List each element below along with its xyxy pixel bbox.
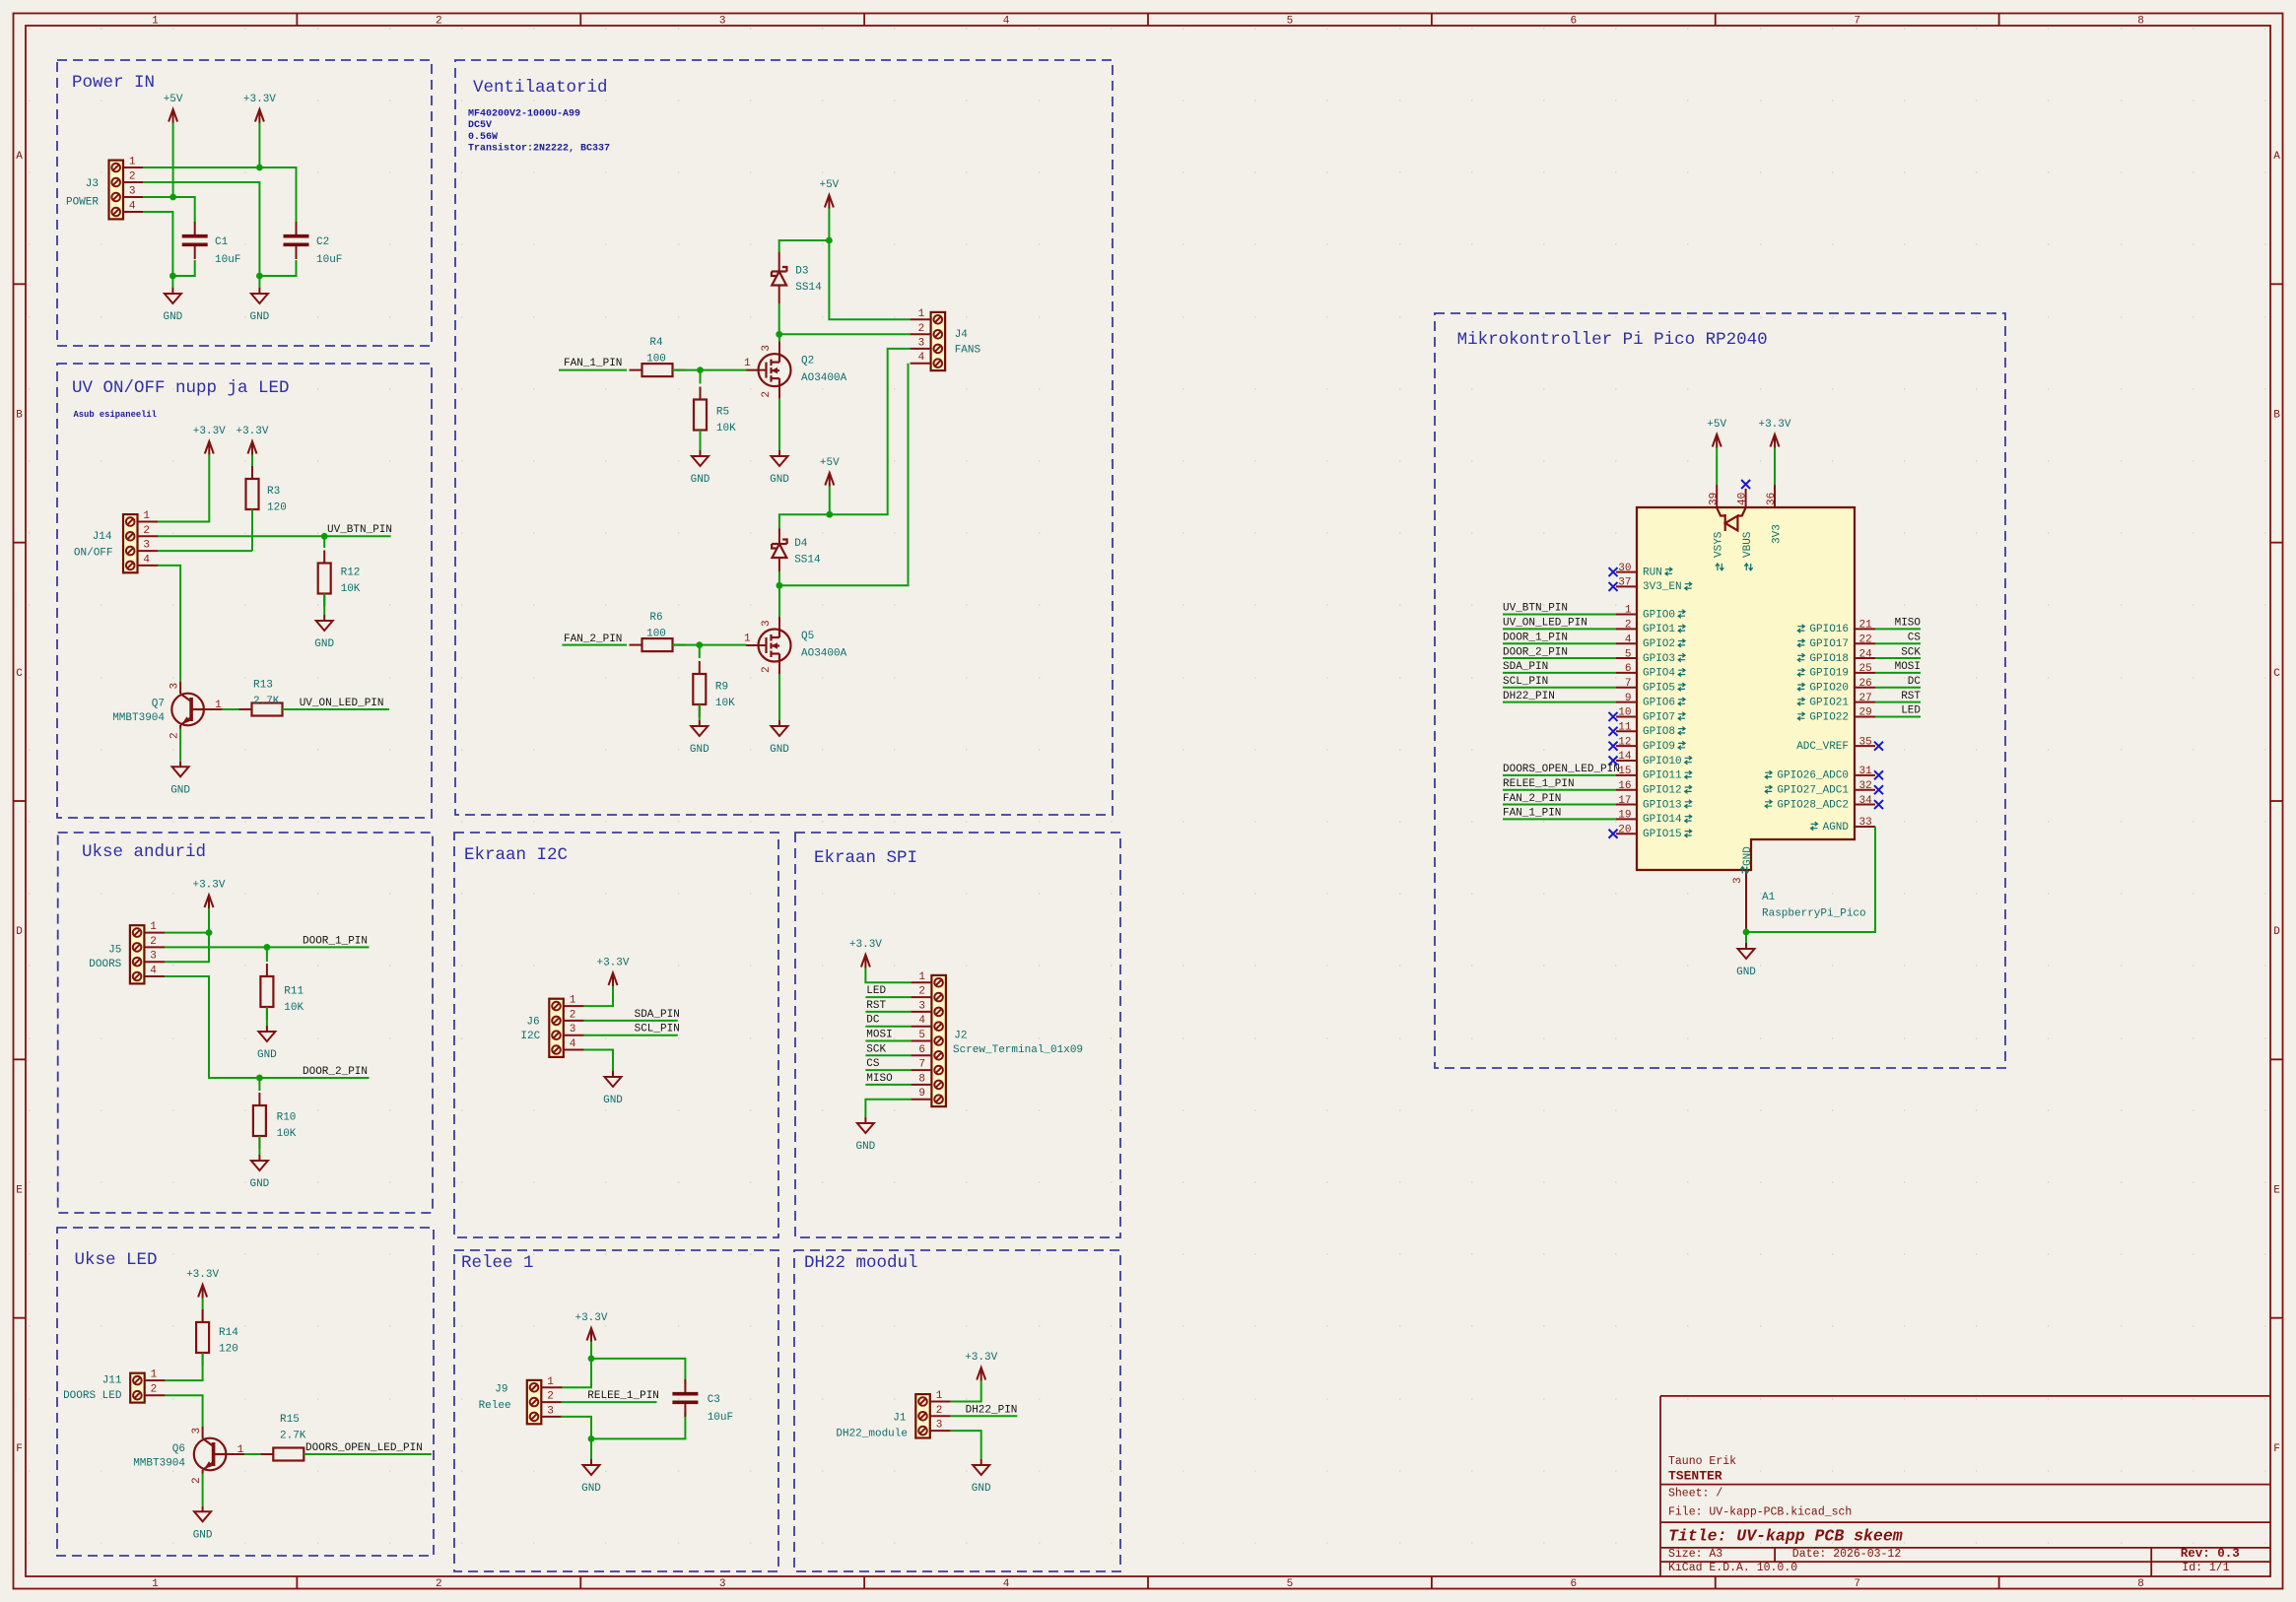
svg-text:7: 7 xyxy=(1625,678,1632,690)
ground xyxy=(581,1459,601,1495)
svg-text:5: 5 xyxy=(1625,648,1632,660)
svg-text:2: 2 xyxy=(1625,620,1632,632)
wire J5 pin4 down / DOOR_2_PIN xyxy=(165,976,370,1078)
diode D3 SS14 xyxy=(772,266,822,295)
svg-text:UV_ON_LED_PIN: UV_ON_LED_PIN xyxy=(300,698,384,709)
svg-text:Transistor:2N2222, BC337: Transistor:2N2222, BC337 xyxy=(468,143,610,155)
junction xyxy=(256,1075,263,1082)
svg-text:2: 2 xyxy=(547,1391,554,1403)
svg-text:2: 2 xyxy=(169,732,181,739)
svg-text:32: 32 xyxy=(1859,780,1872,792)
resistor R15 2.7K xyxy=(260,1414,316,1461)
svg-text:3: 3 xyxy=(150,951,157,963)
svg-text:3: 3 xyxy=(936,1420,943,1432)
svg-text:GPIO19: GPIO19 xyxy=(1809,668,1849,680)
svg-text:10K: 10K xyxy=(715,698,735,709)
svg-text:Ventilaatorid: Ventilaatorid xyxy=(473,78,608,98)
pin 39 VSYS xyxy=(1716,485,1718,507)
svg-text:1: 1 xyxy=(744,358,751,369)
no-connect xyxy=(1874,800,1883,809)
svg-text:2: 2 xyxy=(191,1477,203,1484)
svg-text:DC: DC xyxy=(866,1015,880,1027)
wire J5 pin2 / DOOR_1_PIN xyxy=(165,946,370,948)
svg-text:D3: D3 xyxy=(795,266,808,278)
power +3.3V xyxy=(965,1352,997,1381)
svg-text:AGND: AGND xyxy=(1823,822,1850,834)
svg-text:R6: R6 xyxy=(649,612,662,624)
svg-text:2: 2 xyxy=(150,936,157,948)
svg-text:DOOR_1_PIN: DOOR_1_PIN xyxy=(303,935,368,947)
svg-text:1: 1 xyxy=(151,1369,158,1381)
wire J2 pin2 / LED xyxy=(865,996,911,998)
svg-text:1: 1 xyxy=(1625,605,1632,617)
wire C2 bottom to gnd node xyxy=(259,260,296,276)
svg-text:GPIO26_ADC0: GPIO26_ADC0 xyxy=(1777,770,1849,782)
junction xyxy=(588,1435,595,1442)
svg-text:GPIO18: GPIO18 xyxy=(1809,653,1849,665)
svg-text:24: 24 xyxy=(1859,648,1873,660)
svg-text:GPIO22: GPIO22 xyxy=(1809,711,1849,723)
no-connect xyxy=(1609,830,1618,838)
pin 40 VBUS xyxy=(1745,489,1747,507)
svg-text:MMBT3904: MMBT3904 xyxy=(112,712,165,724)
pin 7 GPIO5 xyxy=(1616,678,1685,695)
svg-text:9: 9 xyxy=(918,1088,925,1100)
pin 27 GPIO21 xyxy=(1797,693,1875,709)
wire node to D3 top xyxy=(779,240,830,252)
wire node to R11 xyxy=(266,947,268,962)
capacitor C3 10uF xyxy=(672,1379,733,1424)
transistor Q6 MMBT3904 xyxy=(133,1427,244,1484)
junction xyxy=(256,273,263,280)
wire D3 bottom to drain node xyxy=(778,286,780,304)
svg-text:2: 2 xyxy=(436,1578,442,1590)
svg-text:MOSI: MOSI xyxy=(866,1030,892,1041)
svg-text:15: 15 xyxy=(1618,766,1631,777)
svg-text:R10: R10 xyxy=(277,1112,297,1124)
wire J1 pin2 / DH22_PIN xyxy=(951,1415,1017,1417)
svg-text:10uF: 10uF xyxy=(708,1412,733,1424)
svg-text:J3: J3 xyxy=(86,178,99,190)
wire node down to J9 pin1 xyxy=(561,1359,591,1387)
wire J6 pin2 / SDA_PIN xyxy=(583,1020,678,1022)
svg-text:SS14: SS14 xyxy=(794,555,821,567)
svg-text:A: A xyxy=(2273,151,2280,163)
svg-text:DOORS: DOORS xyxy=(89,959,121,970)
svg-text:KiCad E.D.A. 10.0.0: KiCad E.D.A. 10.0.0 xyxy=(1668,1562,1797,1574)
svg-text:GPIO2: GPIO2 xyxy=(1643,638,1675,650)
svg-text:A1: A1 xyxy=(1762,892,1776,903)
svg-text:1: 1 xyxy=(237,1444,244,1456)
svg-text:GND: GND xyxy=(770,474,789,486)
svg-text:Ukse andurid: Ukse andurid xyxy=(82,842,206,862)
connector J6 (I2C) xyxy=(520,995,583,1057)
section box: Ukse andurid xyxy=(58,833,433,1213)
wire node to C3 bottom xyxy=(591,1412,685,1438)
no-connect xyxy=(1609,742,1618,751)
svg-text:E: E xyxy=(16,1185,23,1197)
svg-text:RST: RST xyxy=(866,1000,886,1012)
wire J3 pin3 to +5V node xyxy=(143,196,173,198)
pin 20 GPIO15 xyxy=(1616,824,1692,840)
resistor R6 100 xyxy=(630,612,686,651)
wire J3 pin4 down to C1 bottom node xyxy=(143,212,172,276)
pin 19 GPIO14 xyxy=(1616,810,1692,827)
power +3.3V xyxy=(574,1312,607,1342)
pin 25 GPIO19 xyxy=(1797,663,1875,680)
svg-text:2: 2 xyxy=(151,1384,158,1396)
svg-text:34: 34 xyxy=(1859,795,1873,807)
wire CS xyxy=(1875,642,1921,644)
svg-text:+3.3V: +3.3V xyxy=(186,1269,219,1281)
svg-text:RUN: RUN xyxy=(1643,567,1662,578)
svg-text:ON/OFF: ON/OFF xyxy=(74,548,113,560)
svg-text:Relee: Relee xyxy=(479,1400,511,1412)
no-connect xyxy=(1609,712,1618,721)
pin 2 GPIO1 xyxy=(1616,620,1685,636)
svg-text:RaspberryPi_Pico: RaspberryPi_Pico xyxy=(1762,908,1866,920)
capacitor C2 10uF xyxy=(284,222,343,266)
ground xyxy=(770,450,789,486)
svg-text:1: 1 xyxy=(918,308,925,320)
pin 6 GPIO4 xyxy=(1616,663,1685,680)
wire MISO xyxy=(1875,628,1921,630)
wire DOORS_OPEN_LED_PIN xyxy=(1503,774,1616,776)
junction xyxy=(256,165,263,171)
svg-text:2.7K: 2.7K xyxy=(253,696,280,707)
wire node down to J4 pin1 xyxy=(829,240,910,319)
svg-text:1: 1 xyxy=(744,634,751,645)
junction xyxy=(321,533,328,540)
ground xyxy=(170,761,190,796)
wire node to Q5 drain xyxy=(778,585,780,617)
wire node right and up to J4 pin4 xyxy=(779,364,909,586)
junction xyxy=(206,929,213,936)
svg-text:UV_BTN_PIN: UV_BTN_PIN xyxy=(1503,603,1568,615)
svg-text:GPIO17: GPIO17 xyxy=(1809,638,1849,650)
wire MOSI xyxy=(1875,672,1921,674)
svg-text:J5: J5 xyxy=(108,945,121,957)
svg-text:RST: RST xyxy=(1901,691,1921,702)
no-connect xyxy=(1609,567,1618,576)
svg-text:DOORS_OPEN_LED_PIN: DOORS_OPEN_LED_PIN xyxy=(1503,764,1620,775)
svg-text:Q2: Q2 xyxy=(801,356,814,367)
svg-text:POWER: POWER xyxy=(66,197,99,209)
svg-text:DH22 moodul: DH22 moodul xyxy=(804,1253,918,1273)
svg-text:MOSI: MOSI xyxy=(1895,661,1921,673)
svg-text:10K: 10K xyxy=(277,1128,297,1140)
connector J4 (FANS) xyxy=(911,308,946,370)
svg-text:6: 6 xyxy=(1571,16,1578,28)
svg-text:+3.3V: +3.3V xyxy=(193,426,226,437)
wire +5V to pin3 junction xyxy=(172,123,174,198)
svg-text:GND: GND xyxy=(690,744,709,756)
svg-text:RELEE_1_PIN: RELEE_1_PIN xyxy=(1503,778,1575,790)
pin 26 GPIO20 xyxy=(1797,678,1875,695)
svg-text:35: 35 xyxy=(1859,736,1872,748)
svg-text:+3.3V: +3.3V xyxy=(1758,419,1790,431)
wire node to R5 xyxy=(700,370,702,384)
svg-text:C3: C3 xyxy=(708,1394,720,1406)
svg-text:GND: GND xyxy=(257,1049,277,1061)
svg-text:10K: 10K xyxy=(716,423,736,434)
pin 30 RUN xyxy=(1616,563,1672,579)
svg-text:1: 1 xyxy=(152,16,159,28)
svg-text:MISO: MISO xyxy=(1895,618,1922,630)
svg-text:DOORS LED: DOORS LED xyxy=(63,1390,122,1402)
connector J14 (ON/OFF) xyxy=(74,510,159,572)
svg-text:5: 5 xyxy=(918,1030,925,1041)
wire node to Q2 drain xyxy=(778,334,780,341)
section box: DH22 moodul xyxy=(794,1250,1120,1571)
svg-text:SDA_PIN: SDA_PIN xyxy=(635,1009,680,1021)
svg-text:1: 1 xyxy=(570,995,576,1007)
svg-text:3: 3 xyxy=(719,1578,726,1590)
junction xyxy=(264,944,271,951)
diode D4 SS14 xyxy=(772,538,821,567)
svg-text:GND: GND xyxy=(855,1141,875,1153)
svg-text:2: 2 xyxy=(129,171,136,183)
wire J9 pin3 down to node xyxy=(561,1417,591,1439)
svg-text:3: 3 xyxy=(570,1024,576,1035)
power +3.3V xyxy=(243,94,276,123)
power +3.3V xyxy=(596,958,629,987)
svg-text:R14: R14 xyxy=(219,1327,238,1339)
svg-text:21: 21 xyxy=(1859,620,1873,632)
svg-text:ADC_VREF: ADC_VREF xyxy=(1796,741,1849,753)
junction xyxy=(169,194,176,201)
wire DOOR_2_PIN xyxy=(1503,657,1616,659)
wire node to gnd xyxy=(590,1438,592,1459)
svg-text:GND: GND xyxy=(691,474,710,486)
svg-text:R3: R3 xyxy=(267,486,280,498)
svg-text:GPIO20: GPIO20 xyxy=(1809,683,1849,695)
junction xyxy=(826,237,833,244)
wire gnd drop xyxy=(1745,932,1747,943)
svg-text:SCK: SCK xyxy=(1901,646,1921,658)
svg-text:Relee 1: Relee 1 xyxy=(461,1253,534,1273)
svg-text:AO3400A: AO3400A xyxy=(801,372,847,384)
svg-text:3: 3 xyxy=(191,1428,203,1435)
wire J14 pin2 / UV_BTN_PIN xyxy=(158,535,391,537)
svg-text:E: E xyxy=(2273,1185,2280,1197)
svg-text:4: 4 xyxy=(570,1038,576,1050)
svg-text:GPIO27_ADC1: GPIO27_ADC1 xyxy=(1777,785,1849,797)
power +5V xyxy=(164,94,183,123)
svg-text:DOOR_2_PIN: DOOR_2_PIN xyxy=(303,1066,368,1078)
svg-text:GND: GND xyxy=(193,1529,213,1541)
svg-text:1: 1 xyxy=(150,921,157,933)
svg-text:GPIO12: GPIO12 xyxy=(1643,785,1682,797)
pin 21 GPIO16 xyxy=(1797,620,1875,636)
svg-text:R9: R9 xyxy=(715,682,728,694)
svg-text:UV_ON_LED_PIN: UV_ON_LED_PIN xyxy=(1503,618,1587,630)
wire gnd drop 2 xyxy=(258,276,260,288)
transistor Q5 AO3400A xyxy=(744,617,847,674)
pin 5 GPIO3 xyxy=(1616,648,1685,665)
svg-text:29: 29 xyxy=(1859,707,1872,719)
power +3.3V xyxy=(1758,419,1790,448)
svg-text:25: 25 xyxy=(1859,663,1872,675)
svg-text:120: 120 xyxy=(267,502,287,514)
svg-text:GPIO14: GPIO14 xyxy=(1643,814,1682,826)
svg-text:17: 17 xyxy=(1618,795,1631,807)
resistor R4 100 xyxy=(630,337,686,376)
svg-text:Screw_Terminal_01x09: Screw_Terminal_01x09 xyxy=(953,1044,1083,1056)
svg-text:33: 33 xyxy=(1859,817,1872,829)
wire UV_ON_LED_PIN xyxy=(1503,628,1616,630)
svg-text:GND: GND xyxy=(163,311,182,323)
wire D4 bottom to drain node xyxy=(778,558,780,571)
svg-text:+5V: +5V xyxy=(820,457,840,469)
svg-text:DH22_module: DH22_module xyxy=(836,1428,908,1439)
svg-text:J11: J11 xyxy=(102,1375,122,1387)
junction xyxy=(826,511,833,518)
ground xyxy=(690,720,709,756)
svg-text:Id: 1/1: Id: 1/1 xyxy=(2182,1562,2229,1574)
wire +3.3V down to pin1 xyxy=(208,908,210,933)
wire J14 pin1 to +3.3V xyxy=(158,455,209,522)
svg-text:C: C xyxy=(2273,668,2280,680)
svg-text:2: 2 xyxy=(918,986,925,998)
ground xyxy=(314,615,334,650)
svg-text:10uF: 10uF xyxy=(316,254,342,266)
svg-text:UV_BTN_PIN: UV_BTN_PIN xyxy=(327,524,392,536)
pin 9 GPIO6 xyxy=(1616,693,1685,709)
wire R14 to J11 pin1 xyxy=(166,1353,203,1380)
svg-text:LED: LED xyxy=(866,985,886,997)
pin 16 GPIO12 xyxy=(1616,780,1692,797)
svg-text:Asub esipaneelil: Asub esipaneelil xyxy=(74,410,157,420)
wire FAN_2_PIN xyxy=(1503,804,1616,806)
pin 22 GPIO17 xyxy=(1797,634,1875,650)
no-connect xyxy=(1874,785,1883,794)
svg-text:J6: J6 xyxy=(526,1017,539,1029)
svg-text:2: 2 xyxy=(936,1405,943,1417)
svg-text:SS14: SS14 xyxy=(795,282,822,294)
wire J1 pin3 to gnd xyxy=(951,1431,981,1459)
svg-text:CS: CS xyxy=(1908,632,1922,643)
section box: Ekraan I2C xyxy=(454,833,778,1237)
svg-text:MMBT3904: MMBT3904 xyxy=(133,1458,185,1470)
junction xyxy=(697,367,704,373)
wire node to C1 top xyxy=(173,197,195,223)
no-connect xyxy=(1874,770,1883,779)
svg-text:GND: GND xyxy=(249,311,269,323)
svg-text:Ekraan SPI: Ekraan SPI xyxy=(814,848,917,868)
svg-text:3: 3 xyxy=(761,620,773,627)
pin 17 GPIO13 xyxy=(1616,795,1692,812)
resistor R11 10K xyxy=(260,964,304,1020)
svg-text:R15: R15 xyxy=(280,1414,300,1426)
wire R5 to gnd xyxy=(700,431,702,451)
svg-text:8: 8 xyxy=(2137,16,2144,28)
svg-text:30: 30 xyxy=(1618,563,1631,574)
svg-text:FANS: FANS xyxy=(955,345,981,357)
svg-text:DOOR_1_PIN: DOOR_1_PIN xyxy=(1503,632,1568,643)
wire R15 / DOORS_OPEN_LED_PIN xyxy=(304,1453,432,1455)
wire FAN_1_PIN to R4 xyxy=(559,369,627,371)
svg-text:GPIO0: GPIO0 xyxy=(1643,609,1675,621)
svg-text:B: B xyxy=(16,410,23,422)
svg-text:2: 2 xyxy=(436,16,442,28)
wire gnd drop 1 xyxy=(171,276,173,288)
wire AGND to gnd node xyxy=(1746,827,1875,932)
svg-text:1: 1 xyxy=(129,157,136,168)
resistor R3 120 xyxy=(246,466,287,522)
svg-text:2: 2 xyxy=(761,391,773,398)
svg-text:22: 22 xyxy=(1859,634,1872,645)
svg-text:+3.3V: +3.3V xyxy=(849,939,882,951)
junction xyxy=(1743,929,1750,936)
svg-text:3: 3 xyxy=(918,337,925,349)
wire J2 pin4 / DC xyxy=(865,1026,911,1028)
ground xyxy=(855,1117,875,1153)
power +5V xyxy=(1707,419,1726,448)
wire J2 pin9 to gnd xyxy=(865,1100,911,1117)
connector J9 (Relee) xyxy=(479,1376,563,1425)
svg-text:Q6: Q6 xyxy=(172,1443,185,1455)
resistor R14 120 xyxy=(196,1309,238,1366)
svg-text:+5V: +5V xyxy=(819,179,839,191)
junction xyxy=(588,1356,595,1363)
wire +3.3V to node xyxy=(590,1342,592,1359)
connector J1 (DH22_module) xyxy=(836,1390,950,1439)
wire +3.3V to J6 pin1 xyxy=(583,986,613,1006)
pin 1 GPIO0 xyxy=(1616,605,1685,622)
svg-text:GPIO16: GPIO16 xyxy=(1809,624,1849,635)
svg-text:12: 12 xyxy=(1618,736,1631,748)
wire DC xyxy=(1875,687,1921,689)
svg-text:100: 100 xyxy=(646,629,666,640)
power +3.3V xyxy=(849,939,882,968)
svg-text:3V3_EN: 3V3_EN xyxy=(1643,581,1682,593)
svg-text:GND: GND xyxy=(249,1178,269,1190)
wire R12 bottom to gnd xyxy=(323,594,325,616)
svg-text:7: 7 xyxy=(1854,1578,1860,1590)
junction xyxy=(169,273,176,280)
pin 12 GPIO9 xyxy=(1616,736,1685,753)
svg-text:SCL_PIN: SCL_PIN xyxy=(635,1024,680,1035)
wire J14 pin3 xyxy=(158,550,252,552)
svg-text:5: 5 xyxy=(1287,16,1294,28)
svg-text:GPIO10: GPIO10 xyxy=(1643,756,1682,768)
power +3.3V xyxy=(236,426,268,455)
wire J2 pin6 / SCK xyxy=(865,1054,911,1056)
wire node right and up to J4 pin3 xyxy=(830,349,911,514)
wire J2 pin8 / MISO xyxy=(865,1084,911,1086)
svg-text:4: 4 xyxy=(1003,1578,1010,1590)
wire +5V down to node xyxy=(828,209,830,241)
no-connect xyxy=(1609,727,1618,736)
svg-text:+5V: +5V xyxy=(1707,419,1726,431)
no-connect xyxy=(1874,742,1883,751)
pin 35 ADC_VREF xyxy=(1796,736,1875,753)
svg-text:MISO: MISO xyxy=(866,1073,893,1085)
svg-text:14: 14 xyxy=(1618,751,1632,763)
svg-text:3: 3 xyxy=(761,345,773,352)
svg-text:Tauno Erik: Tauno Erik xyxy=(1668,1455,1736,1468)
svg-text:37: 37 xyxy=(1618,577,1631,589)
svg-text:TSENTER: TSENTER xyxy=(1668,1468,1722,1483)
svg-text:J2: J2 xyxy=(954,1031,967,1042)
svg-text:GPIO4: GPIO4 xyxy=(1643,668,1675,680)
svg-text:4: 4 xyxy=(1625,634,1632,645)
wire J2 pin3 / RST xyxy=(865,1011,911,1013)
svg-text:GND: GND xyxy=(603,1095,623,1106)
svg-text:1: 1 xyxy=(152,1578,159,1590)
svg-text:GND: GND xyxy=(1742,846,1754,866)
